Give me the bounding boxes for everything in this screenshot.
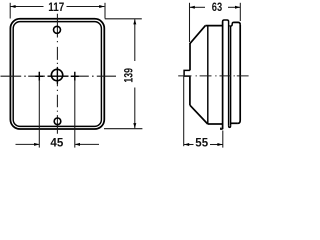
left mounting cross xyxy=(35,72,43,81)
side view: lens front vertical edge xyxy=(189,43,191,70)
side view: body rear edge xyxy=(238,25,240,123)
dim 63 right extension line xyxy=(239,3,241,21)
dim 63 line left with arrow xyxy=(190,6,205,8)
vertical centerline xyxy=(56,14,58,134)
svg-text:45: 45 xyxy=(50,138,64,150)
dim 117 line right with arrow xyxy=(67,6,105,8)
lamp front view inner lens edge xyxy=(13,22,101,127)
dim 45 line right segment with arrow xyxy=(75,143,99,145)
svg-text:139: 139 xyxy=(123,68,135,83)
side view: lens/housing seam xyxy=(207,26,209,124)
dim 55 line left with arrow xyxy=(184,144,194,146)
extension line from right cross down xyxy=(74,81,76,148)
dim 63 line right with arrow xyxy=(228,6,240,8)
side view: clamp rib top cap xyxy=(223,20,229,22)
svg-text:55: 55 xyxy=(195,137,208,149)
side view: band line xyxy=(230,26,232,126)
dim 139 down arrow xyxy=(133,123,136,128)
dim 139 up arrow xyxy=(133,19,136,24)
side view: body top edge xyxy=(234,22,241,25)
dim 55 right extension line xyxy=(222,131,224,148)
dim 117 right extension line xyxy=(104,3,106,19)
side view: band bottom u-turn xyxy=(229,126,231,128)
side view: lens bottom slope xyxy=(190,105,208,124)
side view: clamp rib right edge xyxy=(228,22,230,126)
side view: mounting tab xyxy=(184,70,190,76)
right mounting cross xyxy=(71,72,79,81)
side view: body front rise xyxy=(231,22,234,26)
dim 45 line left segment with arrow xyxy=(16,143,39,145)
horizontal centerline xyxy=(1,75,117,77)
side view horizontal centerline xyxy=(178,75,248,77)
dim 55 left extension line xyxy=(183,77,185,147)
dim 139 bottom reference line xyxy=(104,128,142,130)
side view: body bottom edge xyxy=(231,122,238,124)
lamp front view outer body xyxy=(10,19,104,129)
dim 55 line right with arrow xyxy=(210,144,223,146)
dim 117 line left with arrow xyxy=(10,6,43,8)
side view: lens front slope xyxy=(190,26,206,44)
dim 139 vertical line upper xyxy=(134,19,136,61)
dim 139 vertical line lower xyxy=(134,88,136,129)
dim 117 left extension line xyxy=(9,3,11,19)
dim 63 left extension line xyxy=(189,3,191,42)
side view: valley between rib and body xyxy=(229,25,231,27)
side view: lens top edge xyxy=(205,25,222,27)
side view: lens bottom edge xyxy=(208,123,223,125)
center screw crosshair xyxy=(48,67,69,83)
extension line from left cross down xyxy=(38,81,40,148)
top hole xyxy=(54,26,61,33)
side view: clamp rib left edge xyxy=(222,22,224,130)
side view: lens front lower vertical edge xyxy=(189,76,191,105)
dim 139 top reference line xyxy=(105,18,142,20)
side view: rib bottom foot xyxy=(221,128,223,130)
svg-text:63: 63 xyxy=(212,2,222,14)
bottom hole xyxy=(54,118,61,125)
svg-text:117: 117 xyxy=(48,2,64,14)
center screw target circle xyxy=(51,69,62,80)
